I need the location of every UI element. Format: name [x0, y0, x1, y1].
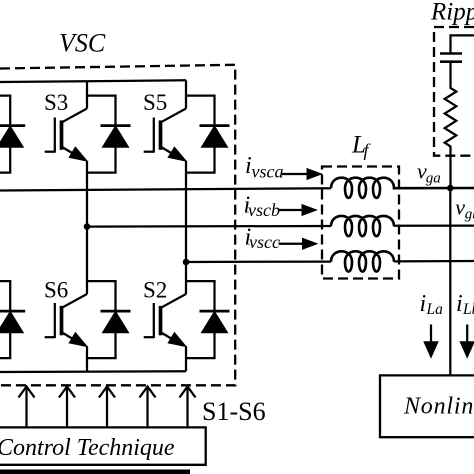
- diode D6 (antiparallel with S6): [87, 281, 131, 358]
- svg-text:S5: S5: [143, 90, 167, 115]
- diode D5 (antiparallel with S5): [186, 96, 230, 173]
- svg-text:v: v: [455, 194, 465, 219]
- wire: bottom DC rail: [0, 370, 186, 373]
- svg-text:Ripple filter: Ripple filter: [430, 0, 474, 26]
- wire: phase-c line (VSC to Lf): [186, 260, 331, 263]
- arrow: i_vscc current direction: [279, 238, 318, 249]
- svg-text:Lb: Lb: [462, 301, 474, 318]
- inductor Lc coil: [331, 251, 394, 271]
- svg-text:ga: ga: [426, 171, 441, 187]
- inductor La coil: [331, 178, 474, 198]
- arrow: i_Lb load current: [460, 325, 474, 358]
- interface inductor Lf dashed box: [322, 167, 399, 279]
- arrow: i_vsca current direction: [282, 169, 322, 180]
- wire: phase-c line (Lf to load): [394, 260, 474, 263]
- svg-text:S3: S3: [44, 90, 68, 115]
- wire: phase-b line (VSC to Lf): [87, 225, 331, 228]
- svg-text:Nonlinear load: Nonlinear load: [403, 394, 474, 420]
- diode D2 (antiparallel with S2): [186, 281, 230, 358]
- inductor Lb coil: [331, 216, 394, 236]
- node: phase-c tap junction: [183, 259, 190, 266]
- VSC converter dashed enclosure: [0, 65, 235, 386]
- gate drive arrow 4: [140, 387, 156, 428]
- cropped element strip at bottom: [0, 470, 190, 474]
- diode D3 (antiparallel with S3): [87, 96, 131, 173]
- node v_ga junction: [447, 185, 454, 192]
- nonlinear load box: [380, 375, 474, 437]
- arrow: i_La load current: [424, 325, 438, 358]
- wire: top DC rail: [0, 80, 186, 82]
- svg-text:vscc: vscc: [249, 232, 280, 252]
- svg-text:S6: S6: [44, 278, 68, 303]
- svg-text:S2: S2: [143, 278, 167, 303]
- svg-text:La: La: [426, 301, 444, 318]
- IGBT S5 (leg-3 upper): [144, 80, 186, 172]
- svg-text:i: i: [456, 291, 463, 317]
- resistor Rr: [445, 63, 457, 188]
- ripple filter dashed box: [434, 27, 474, 156]
- control technique box: [0, 427, 206, 464]
- gate drive arrow 3: [99, 387, 115, 428]
- IGBT S6 (leg-2 lower): [45, 173, 87, 372]
- wire: phase-a line: [0, 188, 331, 190]
- wire: phase-b line (Lf to load): [394, 224, 474, 226]
- diode D4 (leg-1 lower, partial at left edge): [0, 281, 25, 358]
- IGBT S2 (leg-3 lower): [144, 173, 186, 372]
- node: phase-b tap junction: [84, 223, 91, 230]
- diode D1 (leg-1 upper, partial at left edge): [0, 96, 25, 173]
- svg-text:i: i: [420, 291, 427, 317]
- svg-text:VSC: VSC: [59, 29, 106, 58]
- gate drive arrow 5: [180, 387, 196, 428]
- arrow: i_vscb current direction: [278, 205, 317, 216]
- wire: load feeder vertical: [449, 188, 451, 375]
- svg-text:vscb: vscb: [248, 200, 280, 220]
- svg-text:f: f: [364, 140, 372, 160]
- svg-text:S1-S6: S1-S6: [202, 397, 266, 426]
- capacitor Cr: [440, 35, 474, 61]
- svg-text:gb: gb: [465, 207, 474, 223]
- gate drive arrow 1: [19, 387, 35, 428]
- svg-text:Control Technique: Control Technique: [0, 435, 175, 461]
- gate drive arrow 2: [59, 387, 75, 428]
- IGBT S3 (leg-2 upper): [45, 81, 87, 173]
- svg-text:vsca: vsca: [252, 162, 284, 182]
